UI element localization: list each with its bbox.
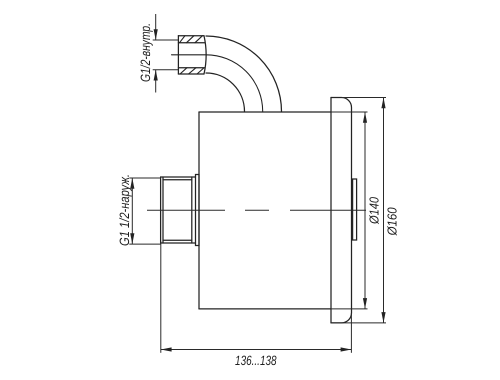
svg-text:136...138: 136...138 — [235, 353, 277, 368]
svg-text:Ø160: Ø160 — [385, 207, 400, 237]
svg-text:Ø140: Ø140 — [367, 196, 382, 224]
svg-text:G1 1/2-наруж.: G1 1/2-наруж. — [117, 174, 132, 246]
svg-text:G1/2-внутр.: G1/2-внутр. — [138, 23, 153, 82]
